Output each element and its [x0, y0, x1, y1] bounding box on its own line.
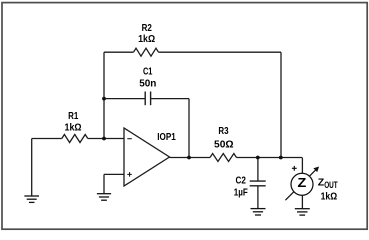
wire: meter drop vertical [301, 158, 303, 174]
svg-text:Z: Z [298, 176, 307, 190]
svg-text:50n: 50n [139, 79, 156, 90]
wire: C2 bottom [257, 186, 259, 208]
svg-text:1kΩ: 1kΩ [65, 123, 82, 134]
resistor R3 [210, 154, 237, 162]
wire: non-inverting ground vertical [103, 174, 105, 193]
ground (R1 input) [24, 196, 39, 202]
meter Z arrow [285, 167, 319, 201]
svg-text:OUT: OUT [324, 180, 338, 190]
wire: meter bottom [301, 195, 303, 208]
ground (Z meter) [295, 209, 310, 215]
wire: C1 left [104, 98, 145, 100]
wire: output right segment [237, 157, 303, 159]
meter Z circle [291, 173, 313, 195]
node: C1 tap junction [102, 97, 106, 101]
svg-text:1kΩ: 1kΩ [321, 191, 338, 202]
resistor R1 [62, 135, 88, 143]
ground (C2) [251, 209, 266, 215]
wire: input ground vertical [31, 139, 33, 196]
wire: non-inverting input horizontal [104, 173, 124, 175]
op-amp minus pin mark [127, 138, 132, 140]
capacitor C1 [145, 92, 150, 106]
wire: top feedback right segment [159, 51, 282, 53]
svg-text:R1: R1 [68, 111, 78, 122]
node: inverting input junction [102, 137, 106, 141]
svg-text:R2: R2 [142, 23, 152, 34]
meter plus polarity mark [292, 166, 297, 171]
svg-text:IOP1: IOP1 [157, 132, 176, 143]
capacitor C2 [250, 181, 266, 186]
svg-text:C1: C1 [143, 67, 153, 78]
op-amp plus pin mark [127, 172, 132, 177]
wire: op-amp output [170, 157, 211, 159]
wire: left feedback rail vertical [103, 52, 105, 138]
wire: input left horizontal [32, 138, 62, 140]
svg-text:C2: C2 [236, 176, 247, 187]
op-amp IOP1 [124, 128, 170, 186]
svg-text:R3: R3 [218, 126, 228, 137]
wire: top feedback left segment [104, 51, 134, 53]
ground (non-inverting input) [97, 194, 111, 201]
wire: inverting input [88, 138, 124, 140]
wire: feedback right vertical [280, 52, 282, 157]
node: output junction C1 [187, 156, 191, 160]
resistor R2 [134, 48, 159, 56]
svg-text:50Ω: 50Ω [214, 140, 234, 151]
node: output junction feedback [279, 156, 283, 160]
wire: C1 branch vertical to output [188, 99, 190, 158]
wire: C1 right [151, 98, 189, 100]
svg-text:1µF: 1µF [234, 188, 248, 199]
node: output junction C2 [256, 156, 260, 160]
svg-text:1kΩ: 1kΩ [138, 34, 155, 45]
wire: C2 top [257, 158, 259, 181]
